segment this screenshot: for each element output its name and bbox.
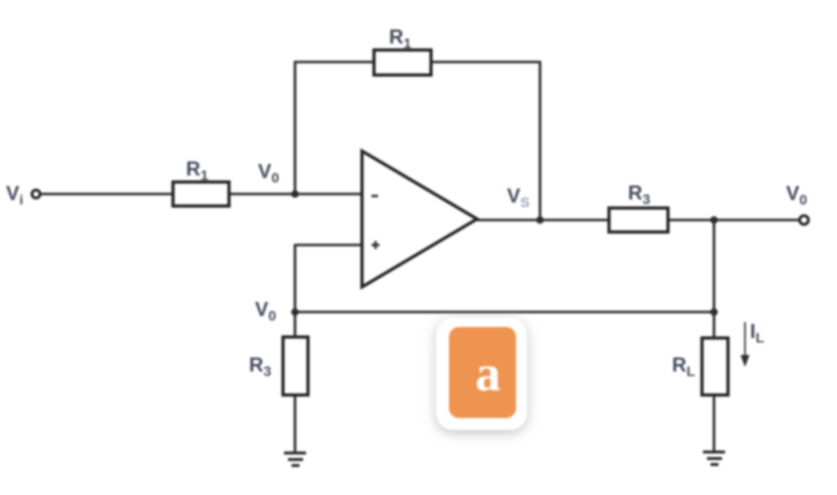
svg-text:R3: R3 bbox=[628, 183, 650, 208]
svg-text:a: a bbox=[475, 346, 501, 402]
svg-text:RL: RL bbox=[672, 355, 695, 380]
svg-text:Vi: Vi bbox=[6, 183, 23, 208]
svg-text:R3: R3 bbox=[249, 355, 271, 380]
svg-text:R1: R1 bbox=[389, 27, 411, 52]
svg-text:IL: IL bbox=[750, 321, 765, 346]
svg-text:VS: VS bbox=[507, 186, 530, 211]
svg-text:V0: V0 bbox=[258, 161, 279, 186]
svg-text:V0: V0 bbox=[255, 299, 276, 324]
svg-text:V0: V0 bbox=[786, 183, 807, 208]
svg-text:R1: R1 bbox=[186, 159, 208, 184]
